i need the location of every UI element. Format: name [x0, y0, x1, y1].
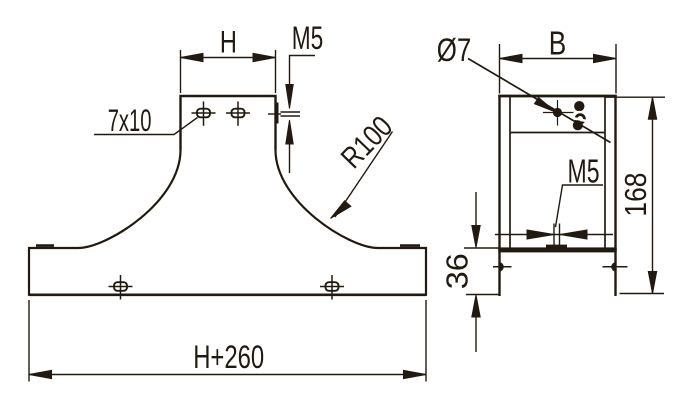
svg-text:7x10: 7x10	[108, 102, 152, 138]
svg-text:M5: M5	[292, 20, 324, 56]
svg-text:M5: M5	[568, 152, 600, 189]
svg-text:168: 168	[618, 173, 653, 217]
svg-text:H+260: H+260	[193, 339, 264, 375]
svg-text:Ø7: Ø7	[437, 32, 472, 68]
svg-text:B: B	[549, 25, 567, 62]
svg-text:36: 36	[440, 253, 475, 289]
svg-text:H: H	[220, 25, 237, 60]
